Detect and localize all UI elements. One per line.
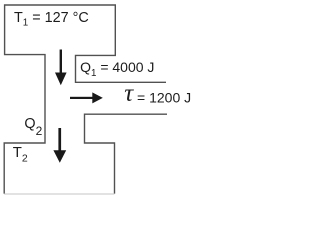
outline right portion: T2 right wall, Q2 channel right wall, tau channel bottom: [85, 114, 168, 193]
T2 bottom light edge: [4, 193, 114, 195]
heat-engine pipe outline: T1 box, Q1 channel, left wall down to T2: [4, 5, 166, 194]
label T2: [13, 146, 28, 166]
label Q1 = 4000 J: [80, 60, 154, 81]
label T1 = 127 C: [14, 11, 89, 31]
arrow Q1 (down, from T1): [55, 50, 67, 86]
label tau = 1200 J: [124, 87, 191, 105]
arrow tau (right, work output): [70, 92, 103, 103]
label Q2: [24, 117, 42, 138]
arrow Q2 (down, to T2): [53, 128, 66, 163]
